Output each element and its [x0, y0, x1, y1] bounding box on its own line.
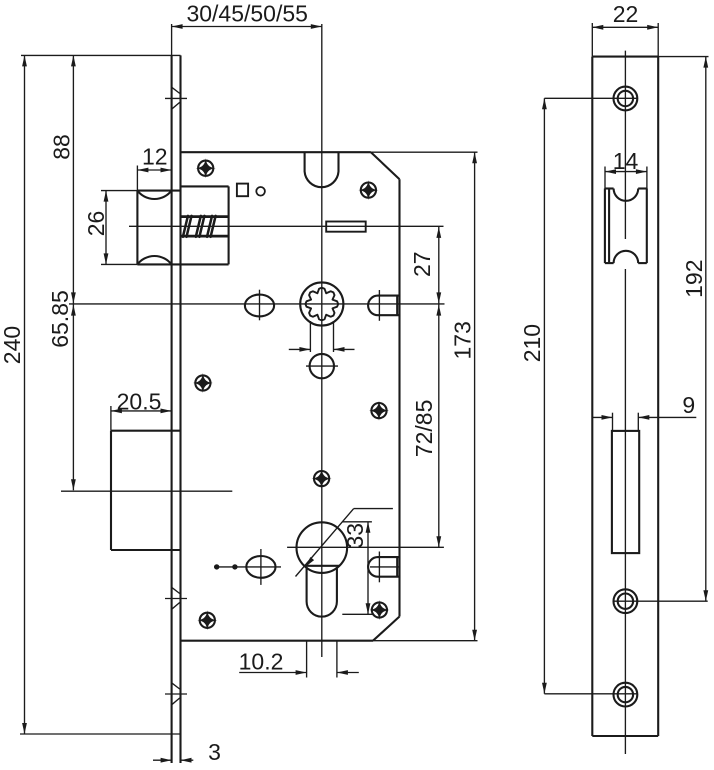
svg-text:26: 26	[83, 211, 109, 237]
svg-text:9: 9	[682, 392, 695, 418]
svg-text:30/45/50/55: 30/45/50/55	[186, 1, 308, 27]
svg-text:12: 12	[142, 144, 168, 170]
svg-text:14: 14	[613, 148, 639, 174]
svg-text:240: 240	[0, 326, 25, 364]
svg-text:65.85: 65.85	[47, 290, 73, 348]
svg-text:27: 27	[409, 251, 435, 277]
svg-text:173: 173	[450, 321, 476, 359]
svg-text:3: 3	[208, 739, 221, 765]
svg-text:210: 210	[519, 324, 545, 362]
svg-text:72/85: 72/85	[411, 400, 437, 458]
svg-text:20.5: 20.5	[117, 389, 162, 415]
svg-text:10.2: 10.2	[239, 649, 284, 675]
svg-text:192: 192	[681, 260, 707, 298]
svg-text:33: 33	[342, 523, 368, 549]
svg-text:88: 88	[49, 134, 75, 160]
svg-text:22: 22	[613, 1, 639, 27]
